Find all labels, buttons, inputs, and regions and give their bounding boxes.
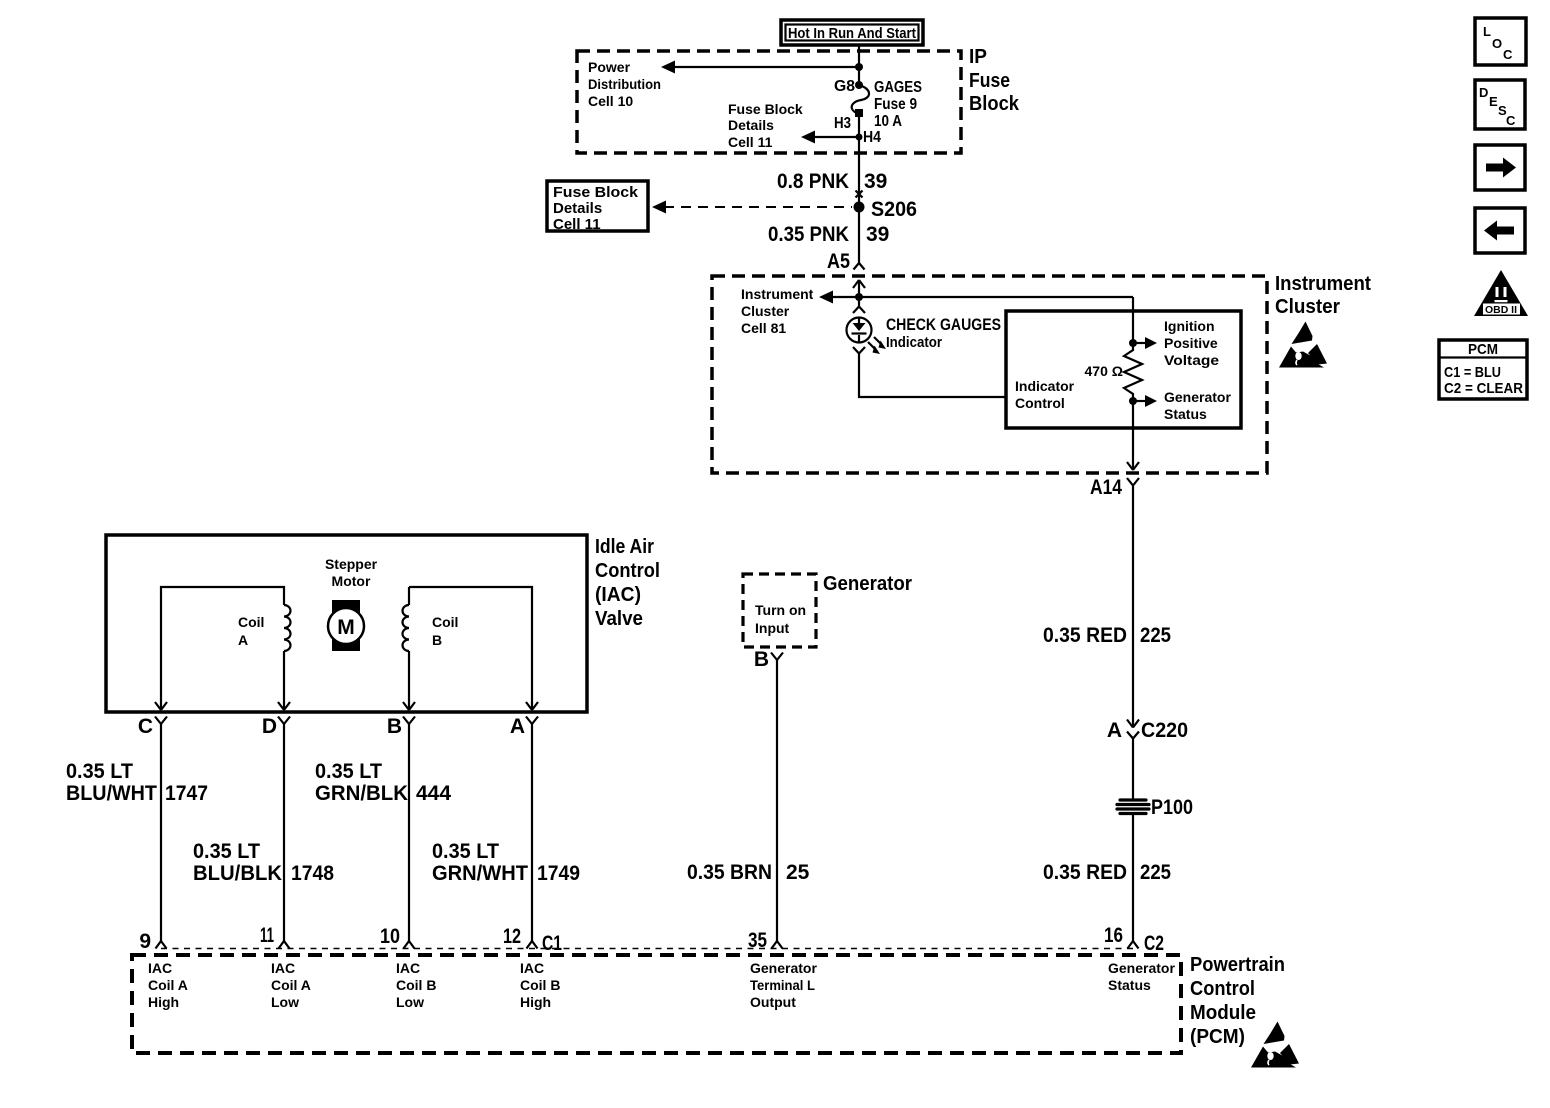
- svg-text:444: 444: [416, 782, 451, 805]
- wire generator to PCM: [776, 660, 778, 941]
- svg-text:Ignition: Ignition: [1164, 318, 1215, 334]
- svg-text:B: B: [754, 648, 769, 671]
- svg-text:Indicator: Indicator: [1015, 378, 1075, 394]
- svg-text:Powertrain: Powertrain: [1190, 954, 1285, 976]
- svg-text:Cell 11: Cell 11: [728, 134, 773, 150]
- pin 16 C2: [1104, 924, 1164, 955]
- Indicator Control solid box: [1006, 311, 1241, 428]
- Instrument Cluster label: [1275, 273, 1371, 318]
- svg-text:C2 = CLEAR: C2 = CLEAR: [1444, 380, 1523, 397]
- PCM connector dashed line: [161, 948, 1133, 950]
- svg-text:225: 225: [1140, 861, 1171, 884]
- node H4: [856, 134, 863, 141]
- svg-text:H4: H4: [863, 129, 881, 146]
- lamp rays: [868, 337, 886, 354]
- svg-text:GRN/WHT: GRN/WHT: [432, 862, 528, 885]
- node ignition positive voltage: [1129, 337, 1157, 349]
- splice S206: [854, 198, 918, 221]
- IAC pin C: [138, 715, 167, 738]
- svg-text:Details: Details: [728, 117, 774, 133]
- svg-text:CHECK GAUGES: CHECK GAUGES: [886, 315, 1001, 334]
- svg-text:High: High: [520, 994, 551, 1010]
- svg-text:Fuse: Fuse: [969, 70, 1010, 92]
- coil A: [161, 587, 291, 703]
- DESC icon box: [1475, 80, 1525, 129]
- wire label 0.8 PNK 39: [777, 170, 887, 193]
- svg-text:Coil: Coil: [238, 614, 264, 630]
- svg-text:A: A: [1107, 719, 1122, 742]
- wire from Hot box into fuse block: [858, 45, 860, 85]
- svg-text:16: 16: [1104, 924, 1123, 947]
- svg-text:Coil B: Coil B: [396, 977, 436, 993]
- resistor 470 ohm: [1085, 343, 1142, 401]
- svg-text:BLU/BLK: BLU/BLK: [193, 862, 282, 885]
- pin 12: [503, 925, 538, 949]
- IAC pin A: [510, 715, 538, 738]
- svg-text:11: 11: [260, 924, 274, 947]
- svg-text:IP: IP: [969, 46, 987, 68]
- svg-text:IAC: IAC: [148, 960, 172, 976]
- svg-text:Cell 11: Cell 11: [553, 216, 601, 233]
- svg-text:Stepper: Stepper: [325, 556, 378, 572]
- arrows at coil B wire ends: [403, 702, 538, 710]
- ESD symbol (PCM): [1251, 1022, 1299, 1068]
- svg-text:0.8 PNK: 0.8 PNK: [777, 170, 849, 193]
- svg-text:9: 9: [139, 930, 151, 953]
- svg-text:GAGES: GAGES: [874, 79, 922, 96]
- svg-text:Control: Control: [595, 560, 660, 582]
- wire arrow to Power Distribution: [661, 61, 859, 74]
- pin B of generator: [754, 648, 783, 671]
- PCM pin text IAC Coil A High: [148, 960, 188, 1010]
- svg-text:Input: Input: [755, 620, 790, 636]
- OBD II triangle icon: [1474, 270, 1528, 316]
- svg-text:G8: G8: [834, 78, 855, 95]
- PCM pin text Generator Terminal L Output: [750, 960, 817, 1010]
- svg-text:C: C: [1506, 113, 1516, 128]
- dashed arrow to Fuse Block Details box: [652, 201, 852, 214]
- IAC pin D: [262, 715, 290, 738]
- svg-text:IAC: IAC: [271, 960, 295, 976]
- svg-text:39: 39: [866, 223, 889, 246]
- svg-text:Cell 10: Cell 10: [588, 93, 633, 109]
- connector A14: [1090, 476, 1139, 499]
- connector C220: [1107, 719, 1188, 742]
- svg-text:C1: C1: [542, 932, 562, 955]
- wire down from cluster feed: [1132, 297, 1134, 343]
- back arrow icon box: [1475, 208, 1525, 253]
- svg-text:10: 10: [380, 925, 400, 948]
- svg-text:L: L: [1483, 24, 1491, 39]
- pin 9: [139, 930, 166, 953]
- arrows at coil A wire ends: [155, 702, 290, 710]
- Power Distribution Cell 10 text: [588, 59, 661, 109]
- svg-text:BLU/WHT: BLU/WHT: [66, 782, 157, 805]
- svg-text:Coil: Coil: [432, 614, 458, 630]
- wire lamp to indicator control box: [859, 354, 1006, 398]
- svg-text:H3: H3: [834, 115, 851, 132]
- wire entering cluster with up arrow: [853, 280, 865, 307]
- wire arrow to Instrument Cluster Cell 81: [819, 291, 1133, 304]
- wire out of cluster with down arrow: [1127, 401, 1139, 470]
- svg-text:1749: 1749: [537, 862, 580, 885]
- svg-text:12: 12: [503, 925, 521, 948]
- svg-text:Cluster: Cluster: [1275, 296, 1340, 318]
- wire C to pin 9: [160, 724, 162, 941]
- svg-text:(IAC): (IAC): [595, 584, 641, 606]
- svg-text:Block: Block: [969, 93, 1020, 115]
- svg-text:25: 25: [786, 861, 810, 884]
- wire label 0.35 RED 225 (upper): [1043, 624, 1171, 647]
- pin 35: [748, 929, 783, 952]
- svg-text:Cluster: Cluster: [741, 303, 790, 319]
- Generator Status text (in box): [1164, 389, 1231, 422]
- svg-text:470 Ω: 470 Ω: [1085, 363, 1123, 379]
- svg-text:Turn on: Turn on: [755, 602, 806, 618]
- pin 10: [380, 925, 415, 949]
- wire label 0.35 LT BLU/BLK 1748: [193, 840, 334, 885]
- svg-text:IAC: IAC: [520, 960, 544, 976]
- wire C220 to P100: [1132, 739, 1134, 800]
- svg-text:Motor: Motor: [332, 573, 371, 589]
- svg-text:Power: Power: [588, 59, 631, 75]
- svg-text:Generator: Generator: [1164, 389, 1231, 405]
- grommet P100: [1117, 796, 1193, 819]
- crossing tick: [856, 191, 863, 198]
- svg-text:Hot In Run And Start: Hot In Run And Start: [788, 25, 916, 42]
- svg-text:Output: Output: [750, 994, 796, 1010]
- svg-text:PCM: PCM: [1468, 341, 1498, 358]
- IP Fuse Block dashed box: [577, 51, 961, 153]
- svg-text:D: D: [1479, 85, 1488, 100]
- svg-text:A: A: [510, 715, 525, 738]
- svg-text:Cell 81: Cell 81: [741, 320, 786, 336]
- svg-text:Generator: Generator: [823, 573, 912, 595]
- svg-text:Coil A: Coil A: [271, 977, 311, 993]
- svg-text:0.35 RED: 0.35 RED: [1043, 861, 1127, 884]
- fuse GAGES Fuse 9 10A: [834, 78, 922, 146]
- svg-text:0.35 LT: 0.35 LT: [193, 840, 260, 863]
- wire fuse to A5: [858, 117, 860, 263]
- svg-text:C: C: [1503, 47, 1513, 62]
- wire A14 to C220: [1132, 486, 1134, 728]
- svg-text:Coil B: Coil B: [520, 977, 560, 993]
- forward arrow icon box: [1475, 145, 1525, 190]
- Fuse Block Details Cell 11 text (inside IP box): [728, 101, 803, 150]
- svg-text:Idle Air: Idle Air: [595, 536, 654, 558]
- svg-text:C: C: [138, 715, 153, 738]
- PCM label: [1190, 954, 1285, 1048]
- wire label 0.35 LT BLU/WHT 1747: [66, 760, 208, 805]
- svg-text:Positive: Positive: [1164, 335, 1218, 351]
- svg-text:High: High: [148, 994, 179, 1010]
- svg-text:D: D: [262, 715, 277, 738]
- svg-text:Generator: Generator: [1108, 960, 1175, 976]
- svg-text:Details: Details: [553, 200, 602, 217]
- svg-text:Voltage: Voltage: [1164, 352, 1219, 368]
- Fuse Block Details Cell 11 solid box: [547, 181, 648, 233]
- svg-text:GRN/BLK: GRN/BLK: [315, 782, 408, 805]
- svg-text:M: M: [337, 616, 355, 639]
- lamp socket chevron: [853, 307, 865, 314]
- node in cluster: [855, 293, 863, 301]
- svg-text:Terminal L: Terminal L: [750, 977, 815, 993]
- svg-text:Instrument: Instrument: [1275, 273, 1371, 295]
- Powertrain Control Module dashed box: [132, 955, 1181, 1053]
- svg-text:S206: S206: [871, 198, 917, 221]
- coil B: [403, 587, 532, 703]
- svg-text:Fuse 9: Fuse 9: [874, 96, 917, 113]
- connector A5: [827, 250, 865, 273]
- svg-text:1747: 1747: [165, 782, 208, 805]
- svg-text:0.35 BRN: 0.35 BRN: [687, 861, 772, 884]
- Instrument Cluster Cell 81 text: [741, 286, 814, 336]
- wire label 0.35 LT GRN/WHT 1749: [432, 840, 580, 885]
- svg-text:Generator: Generator: [750, 960, 817, 976]
- wire label 0.35 BRN 25: [687, 861, 810, 884]
- svg-text:10 A: 10 A: [874, 113, 902, 130]
- svg-text:Instrument: Instrument: [741, 286, 814, 302]
- PCM pin text Generator Status: [1108, 960, 1175, 993]
- svg-text:Distribution: Distribution: [588, 76, 661, 92]
- svg-text:225: 225: [1140, 624, 1171, 647]
- svg-text:39: 39: [864, 170, 887, 193]
- Turn on Input text: [755, 602, 806, 636]
- svg-text:IAC: IAC: [396, 960, 420, 976]
- wire label 0.35 PNK 39: [768, 223, 889, 246]
- ESD symbol (instrument cluster): [1279, 322, 1327, 368]
- svg-text:Fuse Block: Fuse Block: [553, 184, 639, 201]
- Hot In Run And Start label box: [781, 20, 923, 45]
- svg-text:Low: Low: [271, 994, 299, 1010]
- svg-text:C1 = BLU: C1 = BLU: [1444, 364, 1501, 381]
- svg-text:A: A: [238, 632, 248, 648]
- Ignition Positive Voltage text: [1164, 318, 1219, 368]
- svg-text:A14: A14: [1090, 476, 1122, 499]
- wire arrow to Fuse Block Details (inside IP box): [801, 131, 859, 144]
- svg-text:B: B: [387, 715, 402, 738]
- svg-text:A5: A5: [827, 250, 850, 273]
- node at power distribution tap: [855, 63, 863, 71]
- wire D to pin 11: [283, 724, 285, 941]
- LOC icon box: [1475, 18, 1526, 65]
- svg-text:Status: Status: [1108, 977, 1151, 993]
- svg-text:Control: Control: [1015, 395, 1065, 411]
- CHECK GAUGES indicator lamp: [847, 318, 872, 354]
- PCM pin text IAC Coil B Low: [396, 960, 436, 1010]
- wire A to pin 12: [531, 724, 533, 941]
- pin 11: [260, 924, 290, 949]
- svg-text:Control: Control: [1190, 978, 1255, 1000]
- svg-text:O: O: [1492, 36, 1502, 51]
- svg-text:Coil A: Coil A: [148, 977, 188, 993]
- svg-text:(PCM): (PCM): [1190, 1026, 1245, 1048]
- svg-text:Module: Module: [1190, 1002, 1256, 1024]
- svg-text:Low: Low: [396, 994, 424, 1010]
- PCM pin text IAC Coil A Low: [271, 960, 311, 1010]
- svg-text:0.35 RED: 0.35 RED: [1043, 624, 1127, 647]
- svg-text:Indicator: Indicator: [886, 334, 942, 351]
- node generator status: [1129, 395, 1157, 407]
- svg-text:0.35 LT: 0.35 LT: [66, 760, 133, 783]
- stepper motor M: [325, 556, 378, 651]
- svg-text:0.35 LT: 0.35 LT: [432, 840, 499, 863]
- Instrument Cluster dashed box: [712, 276, 1267, 473]
- Generator dashed box: [743, 574, 816, 647]
- svg-text:Valve: Valve: [595, 608, 643, 630]
- svg-text:E: E: [1489, 94, 1498, 109]
- wire label 0.35 RED 225 (lower): [1043, 861, 1171, 884]
- PCM connector legend box: [1439, 340, 1527, 399]
- svg-text:P100: P100: [1151, 796, 1193, 819]
- IAC Valve label: [595, 536, 660, 630]
- svg-text:OBD II: OBD II: [1485, 305, 1517, 316]
- IAC pin B: [387, 715, 415, 738]
- wire P100 to PCM: [1132, 815, 1134, 941]
- svg-text:Status: Status: [1164, 406, 1207, 422]
- PCM pin text IAC Coil B High: [520, 960, 560, 1010]
- svg-text:B: B: [432, 632, 442, 648]
- svg-text:C2: C2: [1144, 932, 1164, 955]
- Idle Air Control (IAC) Valve box: [106, 535, 587, 712]
- svg-text:0.35 LT: 0.35 LT: [315, 760, 382, 783]
- svg-text:0.35 PNK: 0.35 PNK: [768, 223, 849, 246]
- wire label 0.35 LT GRN/BLK 444: [315, 760, 451, 805]
- svg-text:Fuse Block: Fuse Block: [728, 101, 803, 117]
- CHECK GAUGES Indicator text: [886, 315, 1001, 351]
- IP Fuse Block label: [969, 46, 1020, 115]
- svg-text:1748: 1748: [291, 862, 334, 885]
- wire B to pin 10: [408, 724, 410, 941]
- svg-text:C220: C220: [1141, 719, 1188, 742]
